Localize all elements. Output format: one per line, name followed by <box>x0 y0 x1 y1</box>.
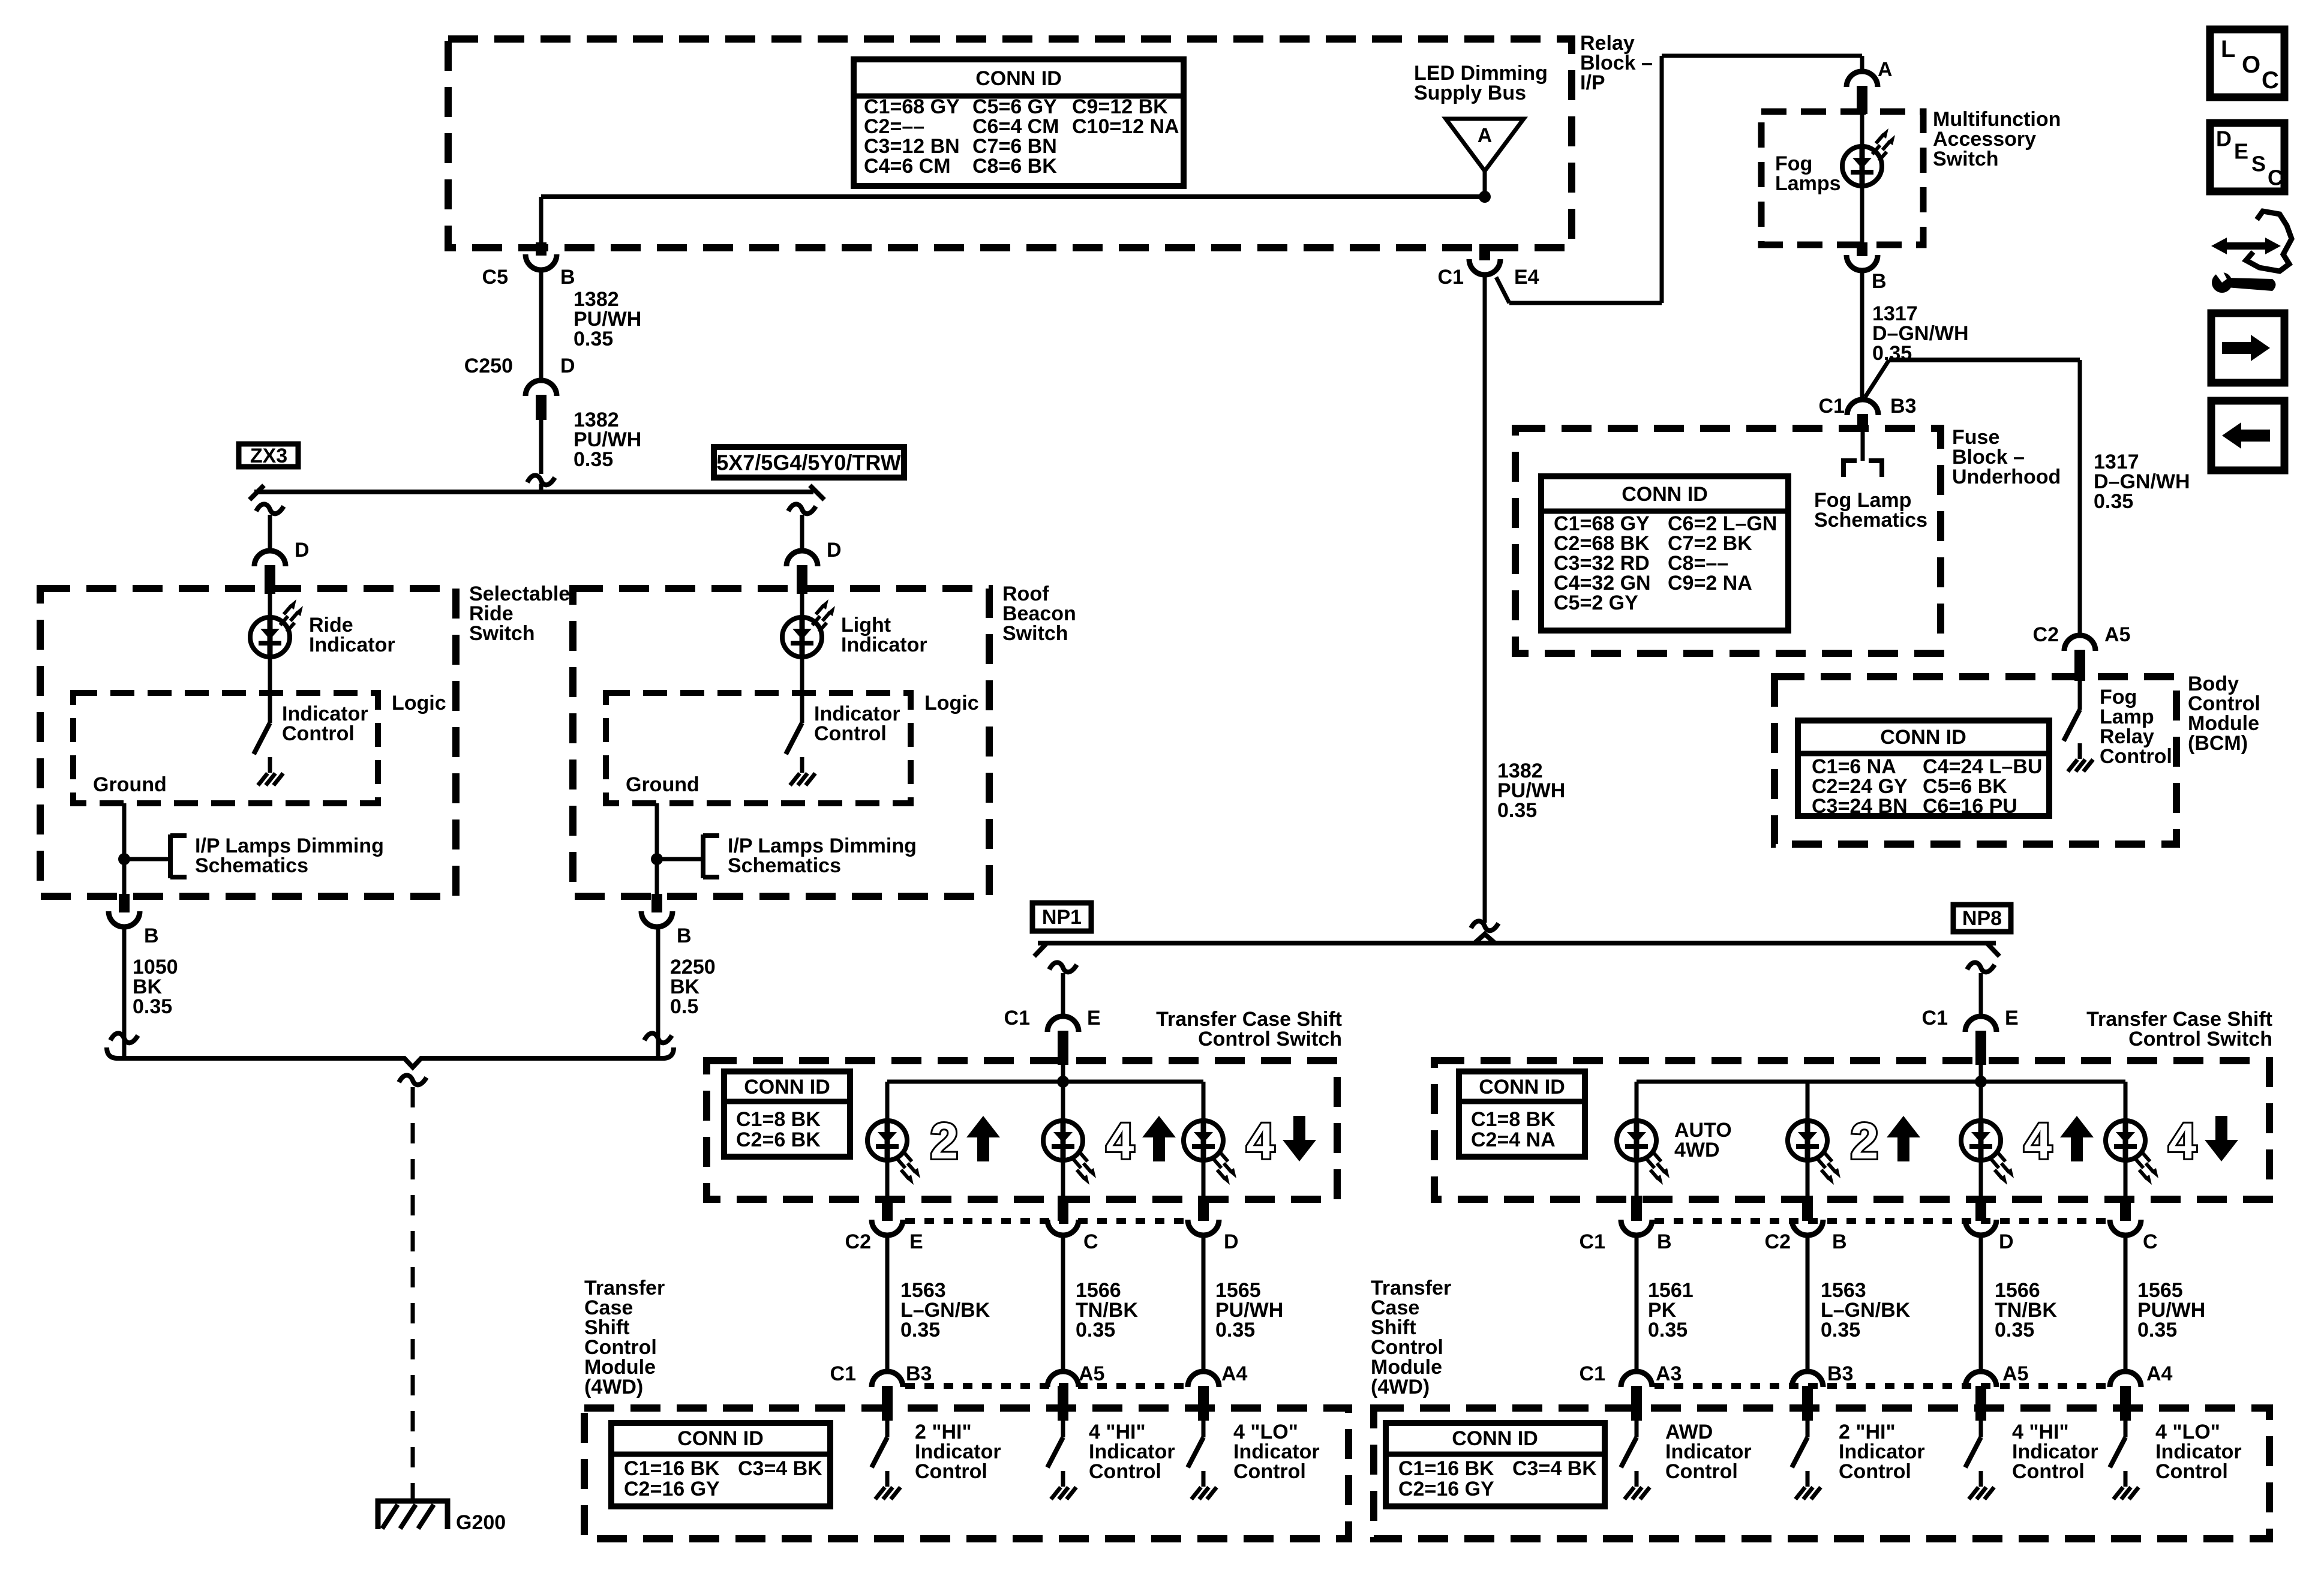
svg-text:A: A <box>1478 124 1493 147</box>
svg-text:G200: G200 <box>456 1511 506 1534</box>
svg-text:CONN ID: CONN ID <box>744 1076 830 1098</box>
svg-text:C8=6 BK: C8=6 BK <box>972 155 1057 178</box>
svg-text:B3: B3 <box>906 1362 932 1385</box>
svg-text:C1: C1 <box>1438 266 1464 289</box>
svg-text:4: 4 <box>2024 1113 2052 1169</box>
svg-text:C1: C1 <box>1922 1007 1948 1029</box>
svg-text:(4WD): (4WD) <box>584 1376 643 1398</box>
svg-text:0.35: 0.35 <box>1648 1319 1688 1341</box>
svg-text:C5=2 GY: C5=2 GY <box>1554 592 1638 614</box>
svg-text:Schematics: Schematics <box>728 854 841 877</box>
svg-text:Ground: Ground <box>626 773 699 796</box>
svg-text:Control: Control <box>2100 745 2172 768</box>
svg-text:Control: Control <box>1233 1460 1306 1483</box>
svg-text:0.35: 0.35 <box>900 1319 940 1341</box>
svg-text:A5: A5 <box>2104 623 2130 646</box>
svg-text:0.5: 0.5 <box>670 995 698 1018</box>
svg-text:B: B <box>1832 1230 1847 1253</box>
svg-text:(BCM): (BCM) <box>2188 732 2248 755</box>
svg-text:E: E <box>1087 1007 1101 1029</box>
svg-text:L: L <box>2221 36 2235 62</box>
svg-text:C1=8 BK: C1=8 BK <box>736 1108 821 1131</box>
svg-text:E: E <box>2005 1007 2019 1029</box>
svg-text:C2: C2 <box>1765 1230 1791 1253</box>
svg-text:CONN ID: CONN ID <box>1622 483 1708 506</box>
svg-text:B: B <box>1872 270 1887 293</box>
svg-text:Control: Control <box>814 722 887 745</box>
svg-text:NP8: NP8 <box>1962 907 2002 930</box>
svg-text:2: 2 <box>930 1113 959 1169</box>
svg-text:Control: Control <box>1839 1460 1911 1483</box>
svg-text:B: B <box>677 924 692 947</box>
svg-text:Logic: Logic <box>924 692 979 715</box>
svg-text:B: B <box>560 266 575 289</box>
svg-text:D: D <box>1999 1230 2014 1253</box>
svg-text:E: E <box>909 1230 923 1253</box>
svg-text:C1: C1 <box>1580 1230 1605 1253</box>
svg-text:Underhood: Underhood <box>1952 466 2061 488</box>
svg-text:(4WD): (4WD) <box>1371 1376 1430 1398</box>
svg-text:A5: A5 <box>1079 1362 1104 1385</box>
svg-text:Lamps: Lamps <box>1775 172 1841 195</box>
svg-text:Indicator: Indicator <box>841 634 927 656</box>
svg-text:C1=8 BK: C1=8 BK <box>1471 1108 1556 1131</box>
svg-text:Supply Bus: Supply Bus <box>1414 82 1526 104</box>
svg-text:Switch: Switch <box>1002 622 1068 645</box>
svg-text:CONN ID: CONN ID <box>1479 1076 1565 1098</box>
svg-text:4: 4 <box>2169 1113 2197 1169</box>
svg-text:0.35: 0.35 <box>1995 1319 2034 1341</box>
svg-text:C2=16 GY: C2=16 GY <box>624 1478 720 1500</box>
svg-text:Ground: Ground <box>93 773 167 796</box>
svg-text:C: C <box>2262 67 2279 94</box>
svg-text:C1: C1 <box>1004 1007 1030 1029</box>
svg-text:C3=4 BK: C3=4 BK <box>738 1457 822 1480</box>
svg-text:C2: C2 <box>845 1230 871 1253</box>
svg-text:C9=2 NA: C9=2 NA <box>1668 572 1752 595</box>
svg-text:A4: A4 <box>1221 1362 1248 1385</box>
svg-text:C6=16 PU: C6=16 PU <box>1923 795 2017 818</box>
svg-text:C: C <box>2268 166 2283 190</box>
svg-text:B: B <box>144 924 159 947</box>
svg-text:4: 4 <box>1247 1113 1275 1169</box>
svg-text:A3: A3 <box>1656 1362 1682 1385</box>
svg-text:B3: B3 <box>1827 1362 1853 1385</box>
svg-text:O: O <box>2242 52 2260 78</box>
svg-text:D: D <box>1224 1230 1239 1253</box>
svg-text:C: C <box>2143 1230 2158 1253</box>
svg-text:C1: C1 <box>830 1362 856 1385</box>
svg-text:CONN ID: CONN ID <box>1452 1427 1538 1450</box>
svg-text:4WD: 4WD <box>1674 1139 1720 1161</box>
svg-text:E4: E4 <box>1514 266 1539 289</box>
svg-text:0.35: 0.35 <box>1076 1319 1115 1341</box>
svg-text:C1: C1 <box>1819 395 1845 418</box>
svg-text:Control: Control <box>282 722 355 745</box>
svg-text:C1: C1 <box>1580 1362 1605 1385</box>
svg-text:CONN ID: CONN ID <box>677 1427 764 1450</box>
svg-text:D: D <box>2216 127 2232 151</box>
svg-text:Schematics: Schematics <box>195 854 308 877</box>
svg-text:C3=4 BK: C3=4 BK <box>1512 1457 1597 1480</box>
svg-text:C4=6 CM: C4=6 CM <box>864 155 951 178</box>
svg-text:E: E <box>2234 139 2248 164</box>
svg-text:0.35: 0.35 <box>1497 799 1537 822</box>
svg-text:CONN ID: CONN ID <box>975 67 1062 90</box>
svg-text:I/P: I/P <box>1580 71 1605 94</box>
svg-text:Control: Control <box>915 1460 987 1483</box>
svg-text:0.35: 0.35 <box>2137 1319 2177 1341</box>
svg-text:Switch: Switch <box>1933 148 1999 170</box>
svg-text:D: D <box>560 355 575 377</box>
svg-text:ZX3: ZX3 <box>250 445 287 467</box>
svg-text:C3=24 BN: C3=24 BN <box>1812 795 1908 818</box>
svg-text:2: 2 <box>1851 1113 1879 1169</box>
svg-text:A5: A5 <box>2002 1362 2028 1385</box>
svg-text:A: A <box>1878 58 1893 81</box>
svg-text:0.35: 0.35 <box>133 995 172 1018</box>
svg-text:Switch: Switch <box>469 622 535 645</box>
svg-text:C2=4 NA: C2=4 NA <box>1471 1128 1556 1151</box>
svg-text:C5: C5 <box>482 266 508 289</box>
svg-text:0.35: 0.35 <box>574 328 613 350</box>
svg-text:Control: Control <box>2155 1460 2228 1483</box>
svg-text:Indicator: Indicator <box>309 634 395 656</box>
svg-text:C2: C2 <box>2033 623 2059 646</box>
svg-text:4: 4 <box>1106 1113 1134 1169</box>
svg-text:Logic: Logic <box>392 692 446 715</box>
svg-text:B3: B3 <box>1890 395 1916 418</box>
svg-text:Control: Control <box>1089 1460 1161 1483</box>
svg-text:C10=12 NA: C10=12 NA <box>1072 115 1179 138</box>
svg-text:C2=6 BK: C2=6 BK <box>736 1128 821 1151</box>
svg-text:D: D <box>295 539 310 562</box>
svg-text:S: S <box>2251 152 2266 176</box>
svg-text:C250: C250 <box>464 355 513 377</box>
svg-text:C: C <box>1083 1230 1098 1253</box>
svg-text:0.35: 0.35 <box>1215 1319 1255 1341</box>
svg-text:Schematics: Schematics <box>1814 509 1927 532</box>
svg-text:B: B <box>1657 1230 1672 1253</box>
svg-text:Control Switch: Control Switch <box>2128 1028 2272 1050</box>
svg-text:C1=16 BK: C1=16 BK <box>624 1457 720 1480</box>
svg-text:Control: Control <box>1665 1460 1738 1483</box>
svg-text:0.35: 0.35 <box>574 448 613 471</box>
svg-text:D: D <box>827 539 842 562</box>
svg-text:C2=16 GY: C2=16 GY <box>1398 1478 1494 1500</box>
svg-text:Control: Control <box>2012 1460 2085 1483</box>
svg-text:0.35: 0.35 <box>2094 490 2133 513</box>
svg-text:5X7/5G4/5Y0/TRW: 5X7/5G4/5Y0/TRW <box>716 451 900 475</box>
svg-text:C1=16 BK: C1=16 BK <box>1398 1457 1494 1480</box>
svg-text:0.35: 0.35 <box>1821 1319 1860 1341</box>
svg-text:CONN ID: CONN ID <box>1880 726 1966 749</box>
svg-text:NP1: NP1 <box>1042 906 1082 929</box>
svg-text:Control Switch: Control Switch <box>1198 1028 1342 1050</box>
svg-text:A4: A4 <box>2146 1362 2173 1385</box>
